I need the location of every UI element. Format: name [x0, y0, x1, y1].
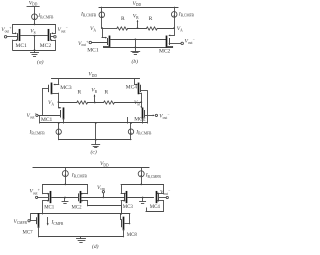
wire node A to R1 (b): [102, 28, 117, 30]
svg-text:MC1: MC1: [87, 47, 99, 53]
bracket left MC1 box (c): [39, 115, 41, 123]
tail rail pair2 (d): [121, 184, 163, 186]
wire MC2 drain hook (b): [167, 46, 173, 47]
junction dot node B (b): [173, 27, 175, 29]
wire pair2 column to dot (d): [121, 206, 123, 214]
wire mid rail to left sink (c): [58, 123, 60, 129]
wire MC4 drain stub (d): [146, 208, 164, 212]
wire MC1 source from node A (c): [59, 102, 62, 109]
junction dot right sink tap (c): [130, 122, 132, 124]
caption (c): [91, 148, 97, 155]
label Vout- (a): [58, 26, 69, 33]
wire MC4 drain hook (c): [140, 93, 142, 102]
junction dot left sink tap (c): [58, 122, 60, 124]
wire MC2 source from node B (b): [168, 28, 174, 36]
svg-text:MC4: MC4: [126, 85, 138, 91]
svg-text:R: R: [105, 90, 109, 96]
label Vout- (d): [160, 189, 171, 196]
svg-text:MC1: MC1: [44, 206, 55, 211]
wire MC3 drain hook (d): [121, 200, 126, 214]
junction dot mid rail center (c): [95, 122, 97, 124]
wire R1 to center (c): [88, 102, 104, 104]
wire MC1 bulk hook (a): [13, 39, 19, 50]
wire Vcm to MC3 gate (d): [103, 197, 124, 199]
junction dot node A (b): [101, 27, 103, 29]
node VDD (a) label: [29, 0, 38, 6]
junction dot mini ground pair1 (d): [64, 197, 66, 199]
transistor MC2 (a): [49, 30, 51, 40]
wire R1 to center node (b): [128, 28, 147, 30]
junction dot center node (b): [137, 27, 139, 29]
svg-text:MC3: MC3: [60, 85, 72, 91]
wire MC1 drain to center (a): [20, 35, 34, 37]
transistor MC4 (c): [139, 83, 141, 93]
wire rail to right current source (d): [141, 168, 143, 171]
resistor R2 (b): [146, 27, 157, 30]
label MC3 (c): [60, 85, 72, 91]
resistor R1 (b): [117, 27, 128, 30]
svg-text:MC3: MC3: [123, 205, 134, 210]
wire MC4 gate (c): [141, 90, 147, 92]
node Vout+ terminal (b): [89, 41, 107, 43]
wire MC2 bulk hook (a): [50, 39, 56, 50]
label R2 (b): [149, 16, 153, 22]
label IB,CMFB right (c): [135, 129, 152, 136]
label Vout+ (c): [27, 112, 38, 119]
current source IB,CMFB (a): [32, 14, 38, 20]
label Vout+ (d): [30, 188, 41, 195]
wire right current source to tail2 (d): [141, 177, 143, 185]
resistor R2 (c): [104, 101, 115, 104]
svg-text:R: R: [149, 16, 153, 22]
label ICMFB (d): [51, 220, 64, 226]
current sink IB,CMFB right (c): [128, 129, 133, 135]
wire left current source to tail1 (d): [65, 177, 67, 185]
transistor MC2 (b): [167, 36, 170, 46]
transistor MC8 (d): [122, 218, 124, 230]
node Vout- terminal (b): [169, 42, 183, 44]
wire MC2 to Vcm node (d): [81, 197, 103, 199]
svg-text:MC8: MC8: [127, 233, 138, 238]
transistor MC7 (d): [37, 214, 39, 227]
wire MC1 drain hook (d): [43, 200, 50, 214]
mini ground pair1 (d): [62, 198, 68, 204]
label MC1 (a): [16, 43, 28, 49]
node Vout+ terminal (d): [36, 196, 49, 198]
label Vout- (c): [159, 113, 170, 120]
label MC2 (a): [40, 43, 52, 49]
tail rail wire (a): [13, 24, 55, 26]
node Vout+ terminal (a): [4, 36, 16, 38]
power rail VDD (c): [52, 78, 140, 80]
ground (d): [77, 237, 86, 243]
label IB,CMFB left (c): [29, 129, 46, 136]
label MC8 (d): [127, 233, 138, 238]
transistor MC2 (c): [143, 108, 145, 118]
wire R2 to node B (c): [114, 102, 141, 104]
wire source hook MC3 (d): [121, 184, 126, 194]
svg-text:MC1: MC1: [16, 43, 28, 49]
transistor MC1 (b): [108, 36, 110, 46]
label Vcm (d): [97, 185, 105, 191]
wire left current source to node A (b): [101, 18, 103, 29]
svg-text:MC2: MC2: [72, 206, 83, 211]
mirror line (d): [31, 213, 130, 215]
node VDD (b) label: [133, 1, 142, 7]
node Vout- terminal (d): [159, 196, 168, 198]
wire MC3 drain hook (c): [52, 93, 59, 102]
current sink IB,CMFB left (c): [56, 129, 61, 135]
current source IB,CMFB right (b): [171, 12, 177, 18]
wire bulk to bottom rail (b): [135, 39, 137, 47]
junction dot bottom (a): [34, 49, 36, 51]
junction dot bottom (c): [95, 139, 97, 141]
junction dot bulk (b): [135, 39, 137, 41]
wire VDD to current source (a): [34, 7, 36, 14]
wire rail to right current source (b): [174, 7, 176, 11]
label VA (c): [48, 100, 54, 106]
bracket left MC2 box (c): [127, 118, 129, 124]
wire MC4 drain hook (d): [157, 200, 164, 211]
junction dot tail (a): [34, 24, 36, 26]
svg-text:MC7: MC7: [23, 231, 34, 236]
node VDD (d) label: [100, 161, 109, 167]
svg-text:(a): (a): [37, 59, 44, 66]
resistor R1 (c): [77, 101, 88, 104]
junction dot drains (a): [34, 35, 36, 37]
label MC4 (d): [150, 205, 161, 210]
power rail VDD (d): [33, 167, 149, 169]
svg-text:(b): (b): [132, 58, 139, 65]
bottom rail (b): [104, 47, 173, 49]
bottom rail (a): [13, 50, 55, 52]
junction dot tail2 (d): [140, 184, 142, 186]
ground (c): [95, 140, 97, 145]
label VA right (b): [177, 26, 183, 32]
stub center node VB (c): [94, 94, 96, 102]
svg-text:R: R: [121, 16, 125, 22]
wire right sink to bottom rail (c): [130, 134, 132, 139]
svg-text:MC2: MC2: [159, 48, 171, 54]
label VB right (c): [134, 100, 140, 106]
annotation arrow ICMFB (d): [47, 218, 49, 226]
label Vout- (b): [185, 38, 196, 45]
label VCMFB (d): [14, 219, 28, 225]
junction dot MC8 drain gate (d): [120, 213, 122, 215]
wire right current source to node B (b): [174, 17, 176, 28]
junction dot Vcm (d): [103, 197, 105, 199]
label MC1 (c): [41, 117, 53, 123]
stub center node VB (b): [137, 20, 139, 28]
junction dot mini ground pair2 (d): [142, 197, 144, 199]
label MC3 (d): [123, 205, 134, 210]
junction dot tail1 (d): [64, 184, 66, 186]
wire MC2 source from node B (c): [140, 102, 142, 108]
node Vcm terminal (d): [102, 191, 104, 198]
junction dot node B (c): [140, 101, 142, 103]
wire MC8 source (d): [123, 230, 125, 237]
transistor MC2 (d): [79, 192, 81, 203]
caption (d): [92, 243, 99, 250]
wire center stem (a): [34, 36, 36, 51]
transistor MC3 (c): [49, 83, 52, 93]
wire current source to tail rail (a): [34, 20, 36, 25]
wire source hook right MC2 (a): [51, 24, 56, 34]
wire rail to left current source (d): [65, 168, 67, 171]
label R1 (b): [121, 16, 125, 22]
transistor MC1 (d): [49, 192, 51, 203]
wire rail to left current source (b): [101, 7, 103, 12]
svg-text:MC2: MC2: [40, 43, 52, 49]
wire MC1 to MC2 inner (d): [52, 197, 78, 199]
node Vout- terminal (c): [147, 114, 157, 116]
label R1 (c): [78, 90, 82, 96]
node Vout- terminal (a): [51, 36, 56, 38]
caption (a): [37, 59, 44, 66]
node VS label (a): [30, 28, 35, 34]
label Vout+ (a): [1, 26, 12, 33]
label VB center (b): [133, 14, 139, 20]
caption (b): [132, 58, 139, 65]
svg-text:MC2: MC2: [134, 116, 146, 122]
current source IB,CMFB left (d): [62, 171, 68, 177]
wire MC7 source (d): [38, 227, 40, 237]
wire mid rail to right sink (c): [130, 123, 132, 129]
ground (a): [34, 50, 36, 52]
wire source hook left MC1 (a): [13, 24, 18, 34]
wire MC4 gate riser to MC2 gate (c): [145, 91, 148, 123]
svg-text:MC4: MC4: [150, 205, 161, 210]
wire MC8 gate tie (d): [120, 214, 122, 220]
label MC2 (d): [72, 206, 83, 211]
svg-text:(d): (d): [92, 243, 99, 250]
power rail VDD (b): [99, 7, 178, 9]
label IB,CMFB right (b): [178, 11, 195, 18]
label MC7 (d): [23, 231, 34, 236]
node VCMFB terminal (d): [28, 214, 36, 222]
wire R2 to node B (b): [157, 28, 174, 30]
label IB,CMFB left (d): [71, 172, 88, 179]
node Vout+ terminal (c): [36, 114, 61, 116]
node VDD (c) label: [88, 72, 97, 78]
wire node A to R1 (c): [59, 102, 77, 104]
cross wire MC2 MC3 drains (d): [88, 205, 122, 207]
wire source hook MC2 (d): [80, 184, 87, 194]
wire MC8 drain loop (d): [125, 214, 130, 224]
wire MC1 source from node A (b): [102, 28, 107, 38]
bulk line (b): [110, 39, 166, 41]
label MC1 (b): [87, 47, 99, 53]
label IB,CMFB right (d): [145, 173, 162, 180]
wire center tap to bottom (c): [95, 123, 97, 140]
label R2 (c): [105, 90, 109, 96]
junction dot node A (c): [58, 101, 60, 103]
wire source hook MC4 (d): [156, 184, 163, 194]
wire MC1 drain (c): [63, 119, 65, 123]
label MC1 (d): [44, 206, 55, 211]
label Vout+ (b): [78, 40, 89, 47]
bottom rail (c): [59, 139, 131, 141]
label MC2 (b): [159, 48, 171, 54]
label MC2 (c): [134, 116, 146, 122]
wire MC2 drain hook (d): [80, 200, 87, 206]
wire MC2 drain to center (a): [35, 35, 48, 37]
junction dot center (c): [94, 102, 96, 104]
mid rail (c): [40, 122, 148, 124]
bottom rail (d): [39, 236, 124, 238]
tail rail pair1 (d): [43, 184, 88, 186]
transistor MC1 (a): [18, 30, 20, 40]
wire MC4 source hook (c): [135, 79, 138, 86]
transistor MC1 (c): [61, 108, 64, 118]
label VB center (c): [91, 88, 97, 94]
mini ground pair2 (d): [140, 198, 146, 204]
wire source hook MC1 (d): [43, 184, 50, 194]
current source IB,CMFB left (b): [99, 12, 105, 18]
transistor MC3 (d): [125, 192, 127, 203]
current source IB,CMFB right (d): [138, 171, 144, 177]
wire MC3 source hook (c): [53, 79, 59, 86]
svg-text:(c): (c): [91, 148, 97, 155]
transistor MC4 (d): [157, 192, 159, 203]
wire MC3 gate (c): [43, 88, 49, 90]
wire Vout+ riser to MC3 gate (c): [42, 88, 44, 115]
label MC4 (c): [126, 85, 138, 91]
svg-text:R: R: [78, 90, 82, 96]
label IB,CMFB (a): [37, 13, 54, 20]
ground (b): [135, 47, 137, 51]
power rail VDD (a): [27, 6, 39, 8]
wire MC3 to MC4 inner (d): [128, 197, 154, 199]
wire MC1 drain hook (b): [104, 46, 110, 47]
wire left sink to bottom rail (c): [58, 135, 60, 140]
wire MC2 drain (c): [142, 119, 144, 123]
junction dot bottom (b): [135, 47, 137, 49]
label IB,CMFB left (b): [80, 11, 97, 18]
label VA (b): [90, 26, 96, 32]
